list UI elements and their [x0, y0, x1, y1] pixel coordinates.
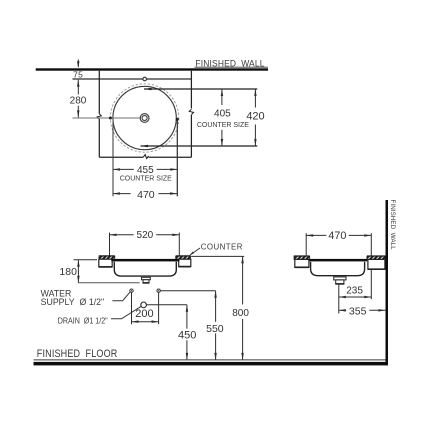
dimension 75 (wall to counter edge)	[73, 60, 83, 80]
supply level line to 550 dimension	[160, 290, 215, 292]
finished floor thick line	[34, 362, 387, 366]
counter top edge line with extension (plan)	[73, 78, 192, 80]
svg-text:470: 470	[137, 189, 155, 201]
svg-text:FINISHED WALL: FINISHED WALL	[389, 200, 396, 251]
dimension 235 extension lines	[339, 270, 372, 314]
svg-text:FINISHED FLOOR: FINISHED FLOOR	[37, 348, 118, 360]
counter section right at wall (side)	[367, 256, 386, 269]
dimension 405 extension line (bottom)	[141, 145, 258, 148]
dimension 405 (cut-out, vertical)	[197, 89, 249, 146]
extension line under tailpiece	[78, 282, 139, 284]
finished wall label (top)	[195, 58, 269, 69]
svg-text:COUNTER: COUNTER	[201, 242, 243, 251]
counter section left (front)	[99, 256, 115, 267]
faucet hole (plan)	[143, 77, 147, 81]
basin bowl profile (front)	[114, 262, 176, 276]
svg-text:520: 520	[137, 230, 154, 241]
svg-text:75: 75	[73, 70, 83, 80]
basin bowl profile (side)	[311, 262, 365, 276]
svg-text:355: 355	[349, 305, 367, 317]
water supply leader	[112, 292, 129, 301]
svg-text:550: 550	[206, 323, 224, 335]
svg-text:180: 180	[59, 266, 77, 278]
svg-text:SUPPLY Ø 1/2": SUPPLY Ø 1/2"	[41, 297, 105, 307]
basin cut-out circle (outer, dashed)	[110, 84, 178, 152]
svg-text:DRAIN Ø1 1/2": DRAIN Ø1 1/2"	[58, 316, 108, 326]
tangent dot on right extension	[176, 118, 179, 121]
counter section right (front)	[176, 256, 191, 267]
svg-text:200: 200	[135, 308, 153, 320]
wall section line (right, thick)	[386, 200, 389, 365]
drain leader	[111, 306, 141, 318]
water supply label	[41, 288, 105, 307]
dimension 800 (counter height)	[232, 256, 249, 360]
counter level line to 800 dimension	[191, 255, 244, 257]
wall section line (top, thick)	[36, 68, 268, 70]
basin rim (side, thick)	[309, 259, 368, 262]
svg-text:450: 450	[178, 330, 196, 342]
dimension 450 (drain height)	[178, 305, 196, 360]
finished floor label	[37, 348, 118, 360]
counter outline right edge (plan)	[189, 71, 193, 158]
svg-text:COUNTER SIZE: COUNTER SIZE	[120, 176, 172, 183]
svg-text:420: 420	[246, 111, 264, 123]
dimension 455 (cut-out diameter)	[113, 165, 177, 176]
counter label with leader	[189, 242, 243, 255]
dimension 420 (counter depth, vertical)	[246, 89, 264, 146]
drain level line to 450 dimension	[146, 304, 187, 306]
counter section left (side)	[294, 256, 310, 267]
dimension 280 (counter edge to basin centre)	[70, 80, 87, 118]
drain outlet circles (plan)	[140, 114, 149, 123]
counter outline bottom edge (plan)	[99, 155, 191, 159]
svg-text:800: 800	[232, 308, 249, 319]
drain tailpiece (front)	[142, 277, 151, 283]
svg-text:470: 470	[328, 230, 346, 242]
drain tailpiece (side)	[334, 277, 346, 284]
svg-text:280: 280	[70, 96, 87, 107]
dimension 470 (counter width, plan)	[113, 189, 177, 201]
svg-text:405: 405	[214, 108, 231, 119]
dimension 355 (drain to wall face)	[339, 305, 386, 317]
dimension 455 extension lines	[113, 121, 177, 197]
basin bowl circle (inner)	[113, 86, 176, 149]
drain point (front)	[141, 302, 147, 308]
water supply points	[130, 289, 161, 292]
basin rim (front, thick)	[111, 259, 179, 262]
dimension 200 (supply spacing)	[132, 293, 159, 325]
finished floor thin line	[34, 359, 387, 361]
dimension 235 (drain to wall)	[339, 285, 372, 298]
basin centreline (plan)	[73, 117, 141, 120]
svg-text:COUNTER SIZE: COUNTER SIZE	[197, 122, 249, 129]
svg-text:235: 235	[346, 285, 363, 296]
dimension 470 (counter depth, side)	[306, 230, 371, 255]
dimension 550 (supply height)	[206, 291, 224, 360]
counter outline left edge (plan)	[98, 71, 100, 114]
dimension 520 (counter width, front)	[110, 230, 180, 255]
dimension 180 (basin depth)	[59, 260, 97, 283]
svg-text:455: 455	[137, 165, 154, 176]
dimension 405 extension line (top)	[144, 88, 257, 91]
